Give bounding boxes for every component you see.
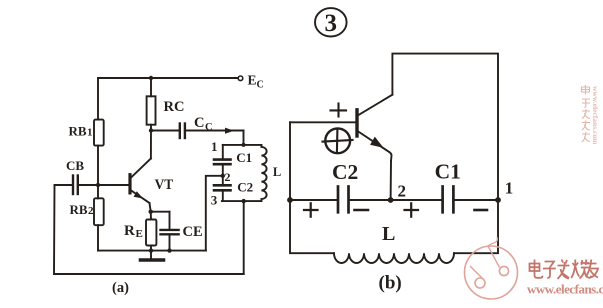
label RB1 — [69, 124, 93, 139]
watermark text dian (电) — [530, 260, 543, 278]
terminal EC circle — [238, 76, 243, 81]
arrow on wire to tank — [225, 128, 234, 134]
label 3 — [211, 193, 218, 208]
label 1 — [211, 139, 218, 154]
wire: down into tank — [243, 131, 245, 145]
label RC — [164, 99, 185, 115]
node 2 — [221, 174, 225, 178]
label (b) — [379, 273, 402, 294]
svg-text:C: C — [205, 122, 213, 133]
svg-text:C1: C1 — [435, 160, 461, 184]
wire: C2 to tank bottom — [222, 190, 224, 201]
svg-text:CB: CB — [66, 158, 84, 173]
node left — [287, 197, 293, 203]
wire: stack top — [222, 145, 224, 159]
wire: C1 to node 2 — [222, 164, 224, 185]
capacitor C1 (b) — [443, 187, 454, 213]
capacitor C1 — [214, 160, 231, 165]
svg-text:E: E — [248, 73, 257, 88]
svg-text:R: R — [124, 223, 135, 239]
watermark right edge vertical — [582, 85, 591, 142]
label CC — [194, 115, 213, 133]
wire: tank bottom — [222, 200, 262, 202]
svg-text:C: C — [194, 115, 204, 131]
node: tank top junction — [242, 143, 246, 147]
resistor RB1 — [94, 120, 104, 146]
wire: base lead (b) — [290, 121, 357, 123]
circled figure number 3 — [315, 8, 347, 37]
svg-text:C2: C2 — [237, 179, 253, 194]
svg-text:E: E — [136, 228, 143, 240]
label EC — [248, 73, 264, 91]
watermark text shao (烧) — [571, 260, 591, 279]
label C1 (b) — [435, 160, 461, 184]
capacitor CE — [151, 212, 179, 251]
node 1 (b) — [495, 197, 501, 203]
label (a) — [112, 280, 129, 296]
label CB — [66, 158, 84, 173]
inductor L (a) — [261, 145, 266, 201]
svg-text:RB: RB — [69, 124, 87, 139]
svg-text:C1: C1 — [236, 150, 252, 165]
label 1 (b) — [505, 179, 514, 198]
svg-text:3: 3 — [325, 10, 338, 37]
svg-text:C2: C2 — [332, 160, 358, 184]
label L (b) — [382, 223, 395, 245]
label C2 (b) — [332, 160, 358, 184]
svg-text:L: L — [382, 223, 395, 245]
wire: node 2 to emitter rail — [206, 176, 223, 251]
wire: main rail (b) — [290, 199, 498, 201]
watermark text you (友) — [586, 260, 598, 278]
wire: left feedback down to bottom rail — [54, 185, 244, 274]
svg-text:www.elecfans.com: www.elecfans.com — [591, 86, 600, 145]
inductor L (b) — [334, 253, 454, 263]
resistor RC — [147, 78, 156, 125]
svg-text:1: 1 — [505, 179, 514, 198]
transistor VT — [130, 125, 151, 212]
label 2 (b) — [398, 182, 407, 201]
wire: RB1 top — [97, 78, 99, 120]
wire: tank top — [223, 144, 262, 146]
wire: base lead — [98, 184, 130, 186]
label VT — [155, 177, 174, 193]
node 2 (b) — [388, 197, 394, 203]
label RE — [124, 223, 143, 240]
ground — [141, 251, 164, 260]
wire: top — [392, 54, 498, 200]
node: emitter node — [149, 210, 153, 214]
label C1 — [236, 150, 252, 165]
label 2 — [225, 170, 231, 184]
node: junction on top rail — [149, 76, 153, 80]
node: RE bottom — [149, 248, 153, 252]
watermark text zi (子) — [543, 262, 556, 279]
wire: left side down — [289, 122, 291, 200]
resistor RE — [146, 212, 156, 251]
transistor (b) — [357, 95, 392, 200]
wire: RB1 bottom to base node — [97, 146, 99, 185]
svg-text:L: L — [273, 165, 281, 179]
node: collector / CC tap — [149, 128, 153, 132]
capacitor CC — [151, 124, 244, 139]
wire: top supply rail — [98, 77, 238, 79]
wire: bottom loop with inductor L (b) — [290, 200, 334, 253]
svg-text:3: 3 — [211, 193, 218, 208]
watermark url — [527, 282, 603, 297]
capacitor C2 (b) — [338, 187, 349, 213]
resistor RB2 — [94, 185, 104, 251]
label RB2 — [70, 202, 95, 217]
polarity marks around C1 — [405, 203, 488, 216]
svg-text:1: 1 — [87, 127, 93, 139]
svg-text:www.elecfans.com: www.elecfans.com — [527, 282, 603, 297]
svg-text:C: C — [257, 80, 264, 91]
svg-text:1: 1 — [211, 139, 218, 154]
node: base node — [96, 183, 100, 187]
svg-text:(b): (b) — [379, 273, 402, 294]
node: CE bottom — [167, 248, 171, 252]
node: tank bottom junction — [242, 199, 246, 203]
wire: tank bottom to feedback rail — [243, 201, 245, 273]
svg-text:2: 2 — [225, 170, 231, 184]
svg-text:VT: VT — [155, 177, 174, 193]
label L (a) — [273, 165, 281, 179]
polarity marks around C2 — [304, 203, 368, 216]
wire: emitter ground rail — [98, 250, 206, 252]
svg-text:CE: CE — [183, 224, 203, 240]
svg-text:2: 2 — [88, 205, 94, 217]
capacitor CB — [55, 176, 99, 195]
label C2 — [237, 179, 253, 194]
emitter junction symbol — [323, 128, 353, 153]
svg-text:(a): (a) — [112, 280, 129, 296]
svg-text:2: 2 — [398, 182, 407, 201]
watermark text fa (发) — [558, 260, 570, 280]
label CE — [183, 224, 203, 240]
watermark logo bottom right — [465, 237, 518, 299]
+ mark above base — [331, 104, 347, 117]
svg-text:RC: RC — [164, 99, 185, 115]
capacitor C2 — [214, 185, 231, 190]
svg-text:RB: RB — [70, 202, 88, 217]
